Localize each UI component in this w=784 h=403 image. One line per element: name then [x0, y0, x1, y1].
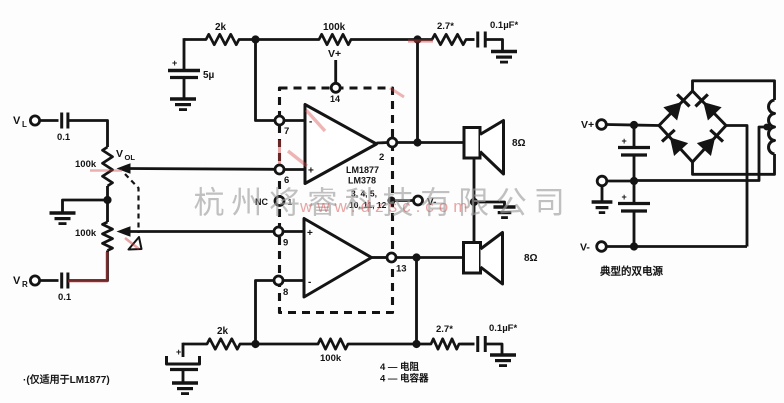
wire transformer bottom to bridge bottom	[693, 154, 775, 174]
wire bottom rail mid2	[350, 343, 429, 346]
svg-text:13: 13	[396, 264, 407, 275]
wire output2 to speaker	[397, 141, 464, 144]
pin 7	[275, 116, 284, 125]
ground (pot midpoint)	[50, 211, 76, 215]
gang link dashed (dual pot)	[125, 174, 139, 233]
svg-text:R: R	[22, 280, 28, 289]
ground (speaker common)	[493, 205, 515, 209]
svg-text:典型的双电源: 典型的双电源	[600, 265, 663, 278]
pin 1 NC	[275, 197, 284, 206]
pin 2 output	[388, 138, 397, 147]
potentiometer 100k lower	[103, 222, 113, 251]
wire wiper upper (to op-amp +in pin 6)	[126, 167, 276, 171]
wire bridge right to V- rail	[726, 126, 747, 247]
wire pot mid to ground stub	[63, 200, 108, 212]
speaker SP2 frame	[464, 243, 481, 274]
svg-text:V: V	[13, 275, 21, 287]
svg-text:100k: 100k	[75, 228, 97, 239]
svg-text:4 — 电阻: 4 — 电阻	[380, 361, 420, 373]
svg-text:V: V	[13, 115, 21, 127]
resistor 100k (top)	[317, 34, 353, 44]
node V+ junction	[630, 121, 638, 129]
resistor 2.7 ohm (bottom snubber)	[429, 339, 461, 349]
wire pot junction	[106, 186, 109, 222]
svg-text:+: +	[308, 166, 314, 177]
node transformer center tap	[763, 124, 770, 131]
capacitor 5u (bottom, polarized)	[167, 356, 200, 364]
node speaker return	[470, 198, 478, 206]
svg-text:0.1µF*: 0.1µF*	[490, 20, 518, 31]
speaker SP1 horn	[480, 121, 504, 175]
wire V+ lead	[334, 60, 337, 84]
wire pin8 to op-amp	[283, 279, 304, 282]
wire VR cap to terminal	[40, 279, 59, 282]
node junction 2k/100k bottom	[251, 340, 259, 348]
svg-text:+: +	[622, 136, 627, 146]
wire zero volt rail	[607, 180, 635, 183]
terminal V- (supply)	[597, 242, 607, 252]
pin 13 output	[387, 253, 396, 262]
svg-text:100k: 100k	[320, 353, 342, 364]
resistor 100k (bottom)	[316, 339, 350, 349]
svg-text:LM1877: LM1877	[346, 165, 379, 175]
wire 5u bottom to ground	[182, 371, 185, 383]
wire bottom rail down to 5u cap	[182, 343, 185, 357]
svg-text:www.dzsc.com: www.dzsc.com	[299, 197, 472, 216]
wire U2 output stub	[372, 256, 388, 259]
wire top rail down to 5u cap	[183, 38, 186, 69]
svg-text:V-: V-	[580, 242, 590, 254]
wire pin8 feedback column	[256, 281, 275, 345]
svg-text:0.1: 0.1	[58, 292, 72, 303]
pin 6	[275, 165, 284, 174]
op-amp U2 (lower amplifier)	[304, 219, 372, 298]
svg-text:8Ω: 8Ω	[512, 138, 526, 149]
potentiometer 100k upper	[103, 147, 113, 186]
svg-text:4 — 电容器: 4 — 电容器	[380, 373, 429, 385]
node zero-volt junction	[630, 177, 638, 185]
ground (below top 5u cap)	[170, 97, 196, 101]
svg-text:6: 6	[284, 175, 289, 186]
diode D4 (bottom-right)	[698, 139, 714, 155]
ground (top right snubber)	[491, 50, 517, 54]
svg-text:2.7*: 2.7*	[437, 21, 454, 32]
wire VL to cap	[40, 119, 59, 122]
svg-text:8Ω: 8Ω	[524, 253, 538, 264]
op-amp U1 (upper amplifier)	[305, 105, 377, 184]
diode D3 (bottom-left)	[671, 139, 687, 155]
node junction top rail / output column	[413, 35, 421, 43]
node junction 2k/100k top	[251, 35, 259, 43]
svg-text:2.7*: 2.7*	[436, 324, 453, 335]
terminal VL	[30, 116, 39, 125]
capacitor 0.1uF (top snubber)	[476, 32, 479, 48]
terminal V+ (supply)	[597, 120, 607, 130]
capacitor 0.1 (VR coupling)	[60, 273, 63, 289]
wire top rail mid2	[353, 38, 430, 41]
pin gnd node on right edge	[388, 197, 396, 205]
svg-text:100k: 100k	[75, 159, 97, 170]
node V- junction	[630, 242, 638, 250]
scan artifact red marks	[68, 252, 107, 281]
svg-text:+: +	[307, 228, 313, 239]
wire 0V ground stub	[601, 186, 604, 201]
wire bottom rail left segment	[183, 343, 205, 346]
svg-text:2: 2	[379, 152, 384, 163]
svg-text:-: -	[308, 277, 311, 288]
capacitor C2 (V- filter)	[618, 202, 650, 205]
svg-text:OL: OL	[125, 153, 136, 162]
pin 9	[274, 227, 283, 236]
wire V+ rail	[606, 125, 659, 126]
wire SP1 return down	[473, 158, 476, 243]
wire pin7 to op-amp	[284, 119, 305, 122]
ground (below bottom 5u cap)	[172, 381, 198, 385]
wire cap C1 top lead	[633, 125, 636, 147]
resistor 2.7 ohm (top snubber)	[430, 34, 468, 44]
capacitor C1 (V+ filter)	[618, 146, 650, 149]
svg-text:14: 14	[330, 94, 340, 104]
wire cap to ground corner (top right)	[485, 40, 502, 51]
svg-text:5µ: 5µ	[203, 70, 215, 81]
wire bottom rail mid1	[242, 343, 316, 346]
wire cap C1 bottom lead	[633, 157, 636, 182]
terminal VR	[30, 276, 39, 285]
ground (bottom right snubber)	[490, 353, 516, 357]
wire 5u cap to ground	[183, 79, 186, 99]
svg-text:V: V	[116, 148, 123, 160]
node pot midpoint	[103, 196, 111, 204]
wire wiper lower (to op-amp +in pin 9)	[126, 230, 275, 233]
wire output13 to speaker	[396, 256, 464, 259]
node output2 junction	[413, 138, 421, 146]
resistor 2k (bottom)	[205, 339, 242, 349]
wire bridge top to transformer	[693, 81, 775, 100]
transformer secondary winding	[769, 100, 775, 154]
wire 2.7 to cap (top)	[468, 38, 475, 41]
ground (supply common)	[592, 200, 613, 204]
pin 14 terminal	[331, 83, 340, 92]
svg-text:L: L	[22, 120, 27, 129]
svg-text:8: 8	[283, 287, 288, 298]
svg-text:·(仅适用于LM1877): ·(仅适用于LM1877)	[23, 373, 110, 386]
svg-text:0.1µF*: 0.1µF*	[489, 323, 517, 334]
capacitor 0.1uF (bottom snubber)	[476, 336, 479, 352]
wire center tap to 0V rail	[634, 127, 767, 181]
svg-text:7: 7	[284, 126, 289, 137]
pin 8	[274, 276, 283, 285]
svg-text:100k: 100k	[323, 22, 346, 33]
wire cap C2 top lead	[633, 181, 636, 203]
wire cap to ground corner (bottom right)	[485, 344, 502, 354]
terminal 0V (supply common)	[597, 176, 607, 186]
speaker SP1 frame	[464, 128, 480, 159]
wire lower pot to VR corner	[68, 251, 108, 281]
wire top rail left segment	[184, 38, 204, 41]
node junction bottom rail / output column	[412, 340, 420, 348]
svg-text:V+: V+	[328, 48, 341, 60]
wire speaker return to ground	[474, 202, 505, 206]
capacitor 0.1 (VL coupling)	[60, 113, 63, 129]
svg-text:LM378: LM378	[348, 176, 376, 186]
wire VL cap to pot	[68, 121, 108, 148]
wire 2.7 to cap (bottom)	[461, 343, 475, 346]
wire 2k/100k node to pin 7	[256, 40, 276, 121]
IC package outline (dashed)	[280, 88, 393, 313]
diode D1 (top-left)	[665, 103, 681, 119]
svg-text:+: +	[176, 347, 181, 357]
svg-text:0.1: 0.1	[57, 132, 71, 143]
diode D2 (top-right)	[704, 103, 720, 119]
svg-text:2k: 2k	[217, 326, 229, 337]
wire top rail mid1	[241, 38, 317, 41]
svg-text:9: 9	[283, 238, 288, 249]
wire pin9 to op-amp	[283, 230, 304, 233]
resistor 2k (top)	[204, 34, 241, 44]
node output13 junction	[412, 253, 420, 261]
wire V- rail	[606, 245, 747, 248]
svg-text:2k: 2k	[215, 22, 227, 33]
bridge rectifier outline	[659, 91, 726, 162]
wire cap C2 bottom lead	[633, 213, 636, 247]
wire output2 junction up to top rail	[416, 40, 419, 143]
wire output13 junction down to bottom rail	[415, 258, 418, 345]
capacitor 5u (top, polarized)	[168, 69, 200, 72]
terminal V- (IC ground pins)	[414, 196, 423, 205]
wire U1 output stub	[377, 141, 389, 144]
speaker SP2 horn	[481, 233, 503, 285]
svg-text:V+: V+	[581, 119, 594, 131]
wire gnd pins to V- terminal	[392, 199, 414, 202]
svg-text:+: +	[172, 58, 177, 68]
svg-text:+: +	[622, 192, 627, 202]
wire pin6 to op-amp	[284, 168, 305, 171]
